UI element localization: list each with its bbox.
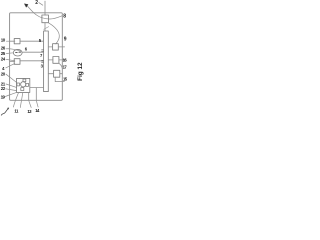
box L2: [14, 59, 20, 65]
svg-text:7: 7: [40, 53, 43, 58]
box L1: [14, 39, 20, 44]
wire R3 to frame: [60, 73, 63, 75]
oval inner marks: [16, 51, 21, 53]
squiggle leader 1: [1, 108, 8, 115]
pump port right: [26, 83, 29, 86]
wire L2 to manifold: [20, 60, 43, 62]
leader 19 to pump: [5, 92, 16, 96]
pump housing: [17, 78, 30, 92]
leader 24 to L2: [6, 59, 14, 60]
pump port top: [23, 79, 26, 82]
leader 25 to oval: [6, 52, 13, 55]
wire frame to L2: [10, 60, 15, 62]
pump port bottom: [21, 88, 24, 91]
svg-text:25: 25: [1, 51, 6, 56]
svg-text:13: 13: [27, 109, 32, 114]
svg-text:17: 17: [63, 64, 68, 69]
tick diagonal under U1: [44, 27, 49, 30]
hatch port upper: [42, 50, 44, 52]
leader 12: [20, 92, 23, 107]
svg-text:15: 15: [63, 77, 68, 82]
wire antenna stem: [44, 1, 46, 15]
leader 20 to pump: [6, 74, 17, 82]
svg-text:5: 5: [39, 38, 42, 43]
enclosure frame: [10, 13, 63, 101]
wire R3 drop: [55, 77, 64, 81]
svg-text:11: 11: [14, 109, 19, 114]
svg-text:24: 24: [1, 56, 6, 61]
hatch port lower: [42, 60, 44, 62]
wire drop mid: [35, 88, 37, 101]
pump rotor circle: [21, 82, 26, 87]
wire R1 to frame: [58, 46, 64, 48]
leader 21 to pump: [6, 84, 17, 87]
wire manifold to R3: [48, 73, 53, 75]
svg-text:9: 9: [64, 36, 67, 42]
arrowhead 1: [7, 108, 9, 109]
pump port left: [17, 83, 20, 86]
tick from 10: [6, 40, 9, 42]
tick from label 2: [39, 3, 43, 6]
svg-text:3: 3: [41, 64, 44, 69]
wire manifold to R1: [48, 46, 52, 48]
svg-text:10: 10: [1, 37, 6, 42]
wire frame to L1: [10, 40, 15, 42]
wire R2 to frame: [59, 59, 65, 61]
svg-text:6: 6: [25, 46, 28, 51]
leader 11: [13, 92, 18, 107]
svg-text:8: 8: [63, 13, 66, 19]
svg-text:Fig 12: Fig 12: [77, 62, 84, 81]
wire U1 to R1 S-curve: [49, 23, 60, 44]
wire L1 to manifold: [20, 40, 43, 42]
oval sensor: [13, 49, 22, 56]
wire pump to manifold: [30, 87, 44, 89]
svg-text:20: 20: [1, 71, 6, 76]
wire pump corner drop: [28, 92, 30, 100]
wire oval to manifold: [22, 51, 43, 53]
wire manifold to R2: [48, 59, 53, 61]
arrowhead of leader 2: [25, 4, 29, 7]
svg-text:26: 26: [1, 46, 6, 51]
leader 14: [36, 100, 38, 107]
leader from arrowhead to label 8: [27, 6, 62, 19]
box U1 top: [42, 15, 49, 23]
leader R2 corner: [59, 63, 62, 68]
manifold tall rectangle: [44, 31, 49, 92]
svg-text:16: 16: [63, 57, 68, 62]
svg-text:14: 14: [35, 108, 40, 113]
leader 26 to oval: [6, 49, 20, 52]
box R3: [54, 70, 60, 77]
box R1: [53, 44, 59, 50]
svg-text:22: 22: [1, 86, 6, 91]
wire U1 to manifold: [44, 23, 46, 31]
leader 4 to L2: [6, 64, 15, 68]
leader 13: [29, 100, 32, 107]
svg-text:2: 2: [35, 0, 38, 6]
box R2: [53, 57, 59, 64]
leader 22 to pump: [6, 89, 17, 91]
